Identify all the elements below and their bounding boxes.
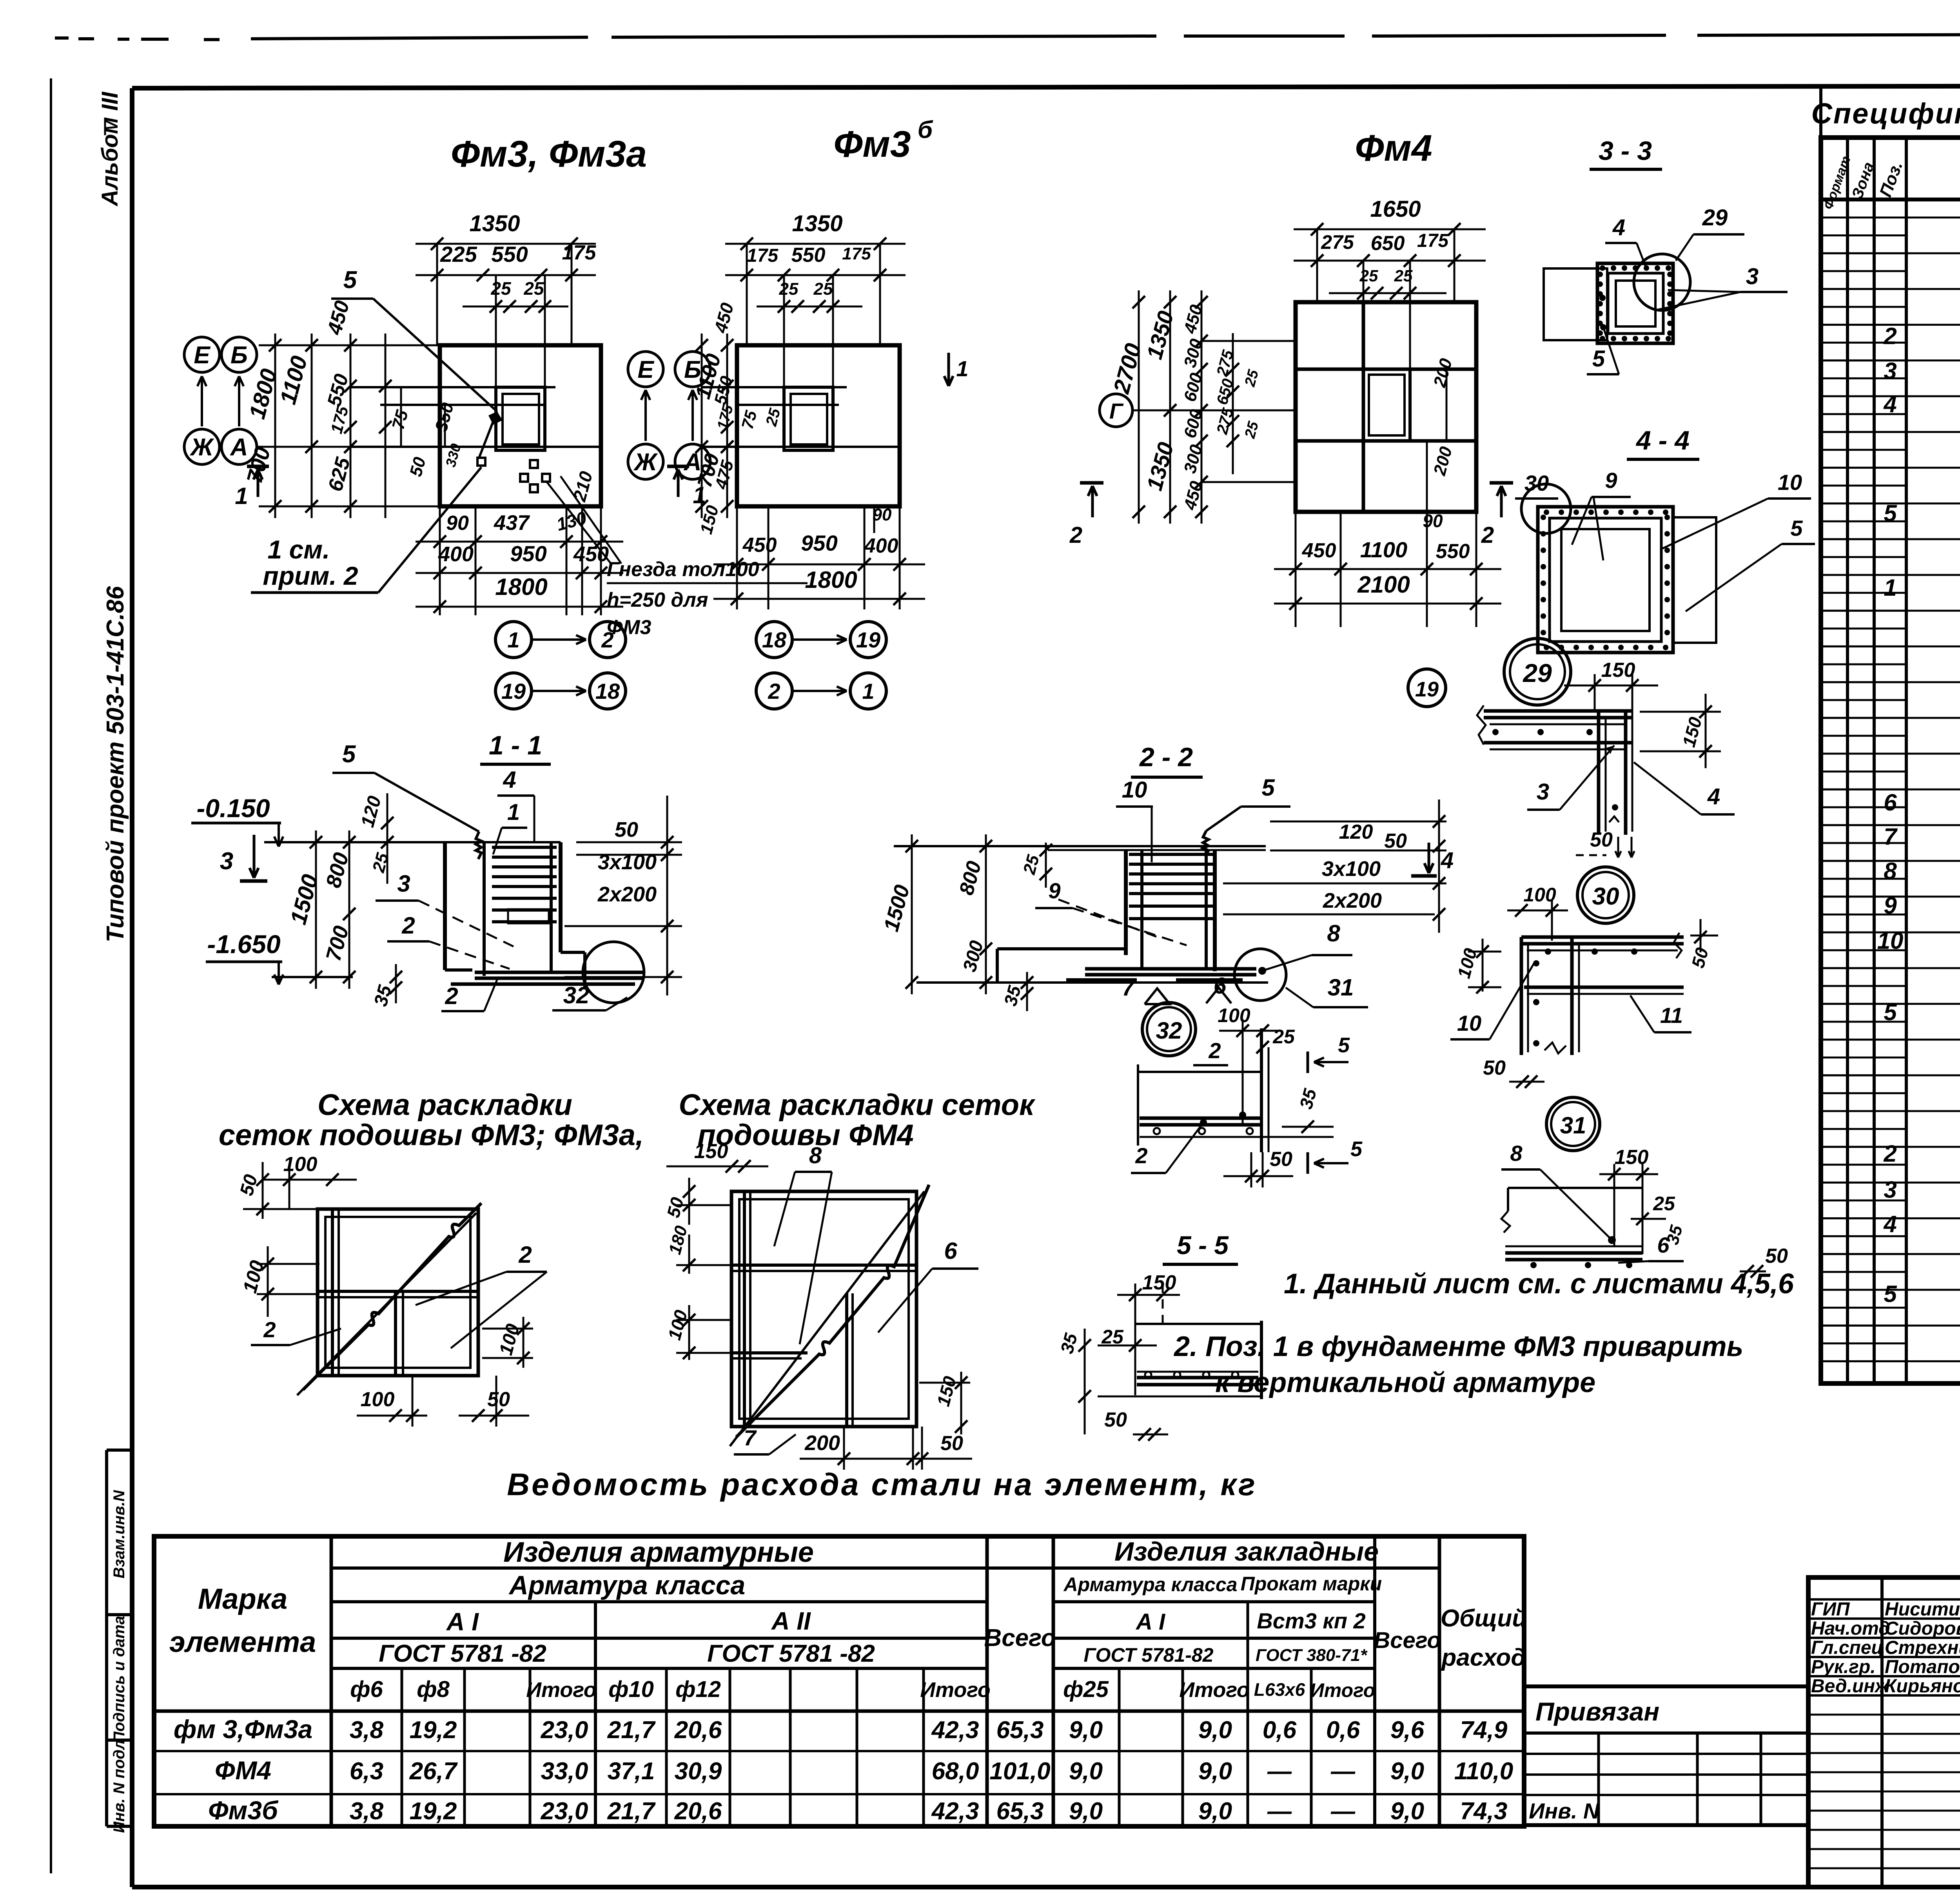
svg-text:50: 50 bbox=[1483, 1057, 1506, 1079]
svg-text:Общий: Общий bbox=[1441, 1605, 1527, 1632]
svg-text:400: 400 bbox=[438, 542, 474, 566]
svg-text:18: 18 bbox=[595, 679, 620, 703]
svg-text:2: 2 bbox=[1481, 522, 1494, 548]
svg-text:1. Данный лист см. с листами: 1. Данный лист см. с листами 4,5,6 bbox=[1284, 1268, 1794, 1300]
svg-text:А I: А I bbox=[446, 1608, 479, 1636]
svg-text:25: 25 bbox=[1394, 267, 1413, 285]
svg-text:1: 1 bbox=[1884, 575, 1896, 601]
svg-text:1650: 1650 bbox=[1370, 196, 1421, 222]
svg-text:8: 8 bbox=[1327, 920, 1340, 946]
svg-text:90: 90 bbox=[1423, 511, 1443, 531]
svg-text:ГОСТ 5781-82: ГОСТ 5781-82 bbox=[1083, 1644, 1213, 1666]
svg-text:Г: Г bbox=[1109, 399, 1124, 423]
svg-text:550: 550 bbox=[491, 242, 528, 267]
svg-text:5: 5 bbox=[1261, 774, 1275, 801]
svg-text:Стрехник: Стрехник bbox=[1885, 1637, 1960, 1658]
svg-text:450: 450 bbox=[1302, 539, 1336, 562]
svg-text:9,0: 9,0 bbox=[1198, 1717, 1232, 1744]
svg-text:Б: Б bbox=[230, 342, 248, 369]
svg-text:101,0: 101,0 bbox=[989, 1758, 1050, 1785]
svg-text:25: 25 bbox=[779, 279, 799, 299]
svg-text:Рук.гр.: Рук.гр. bbox=[1811, 1657, 1876, 1677]
svg-text:50: 50 bbox=[1270, 1148, 1292, 1171]
svg-text:2х200: 2х200 bbox=[597, 883, 657, 906]
svg-text:74,9: 74,9 bbox=[1460, 1717, 1508, 1744]
svg-text:8: 8 bbox=[1510, 1141, 1523, 1166]
svg-text:275: 275 bbox=[1321, 231, 1354, 253]
svg-text:5 - 5: 5 - 5 bbox=[1177, 1231, 1229, 1260]
svg-text:3х100: 3х100 bbox=[598, 850, 657, 874]
svg-text:21,7: 21,7 bbox=[607, 1798, 656, 1825]
svg-text:-0.150: -0.150 bbox=[196, 794, 270, 823]
svg-text:1800: 1800 bbox=[805, 567, 857, 593]
svg-text:Фм3, Фм3а: Фм3, Фм3а bbox=[451, 133, 647, 175]
svg-text:Фм3: Фм3 bbox=[833, 123, 911, 165]
svg-text:4: 4 bbox=[1707, 784, 1720, 809]
svg-text:10: 10 bbox=[1122, 777, 1147, 803]
svg-text:4: 4 bbox=[1612, 215, 1625, 240]
svg-text:4: 4 bbox=[1883, 1211, 1896, 1237]
svg-text:подошвы ФМ4: подошвы ФМ4 bbox=[697, 1119, 914, 1152]
svg-text:30: 30 bbox=[1592, 883, 1619, 910]
svg-text:1: 1 bbox=[956, 356, 968, 381]
svg-text:2х200: 2х200 bbox=[1323, 889, 1382, 912]
svg-text:Прокат марки: Прокат марки bbox=[1241, 1573, 1382, 1595]
svg-text:31: 31 bbox=[1328, 974, 1354, 1001]
svg-text:Е: Е bbox=[637, 356, 654, 383]
svg-text:225: 225 bbox=[440, 242, 477, 267]
svg-text:Ж: Ж bbox=[189, 434, 214, 461]
svg-text:175: 175 bbox=[842, 244, 871, 263]
svg-text:950: 950 bbox=[510, 541, 546, 566]
svg-text:9: 9 bbox=[1605, 468, 1617, 493]
svg-text:2: 2 bbox=[768, 679, 780, 703]
svg-text:Сидорова: Сидорова bbox=[1885, 1618, 1960, 1639]
svg-text:4: 4 bbox=[1883, 391, 1896, 417]
svg-text:150: 150 bbox=[1142, 1271, 1176, 1294]
svg-text:25: 25 bbox=[1653, 1193, 1675, 1215]
svg-text:20,6: 20,6 bbox=[674, 1798, 722, 1825]
svg-text:25: 25 bbox=[813, 279, 833, 299]
svg-text:550: 550 bbox=[1436, 540, 1470, 563]
svg-text:11: 11 bbox=[1660, 1003, 1683, 1028]
svg-text:3: 3 bbox=[1884, 1177, 1896, 1203]
svg-text:Подпись и дата: Подпись и дата bbox=[111, 1616, 128, 1743]
svg-text:5: 5 bbox=[1592, 346, 1605, 372]
svg-text:90: 90 bbox=[446, 512, 469, 535]
svg-text:А II: А II bbox=[771, 1607, 811, 1635]
svg-text:50: 50 bbox=[487, 1388, 510, 1411]
svg-text:100: 100 bbox=[1218, 1004, 1250, 1026]
svg-text:10: 10 bbox=[1778, 470, 1802, 495]
svg-text:Взам.инв.N: Взам.инв.N bbox=[111, 1490, 128, 1578]
svg-text:-1.650: -1.650 bbox=[207, 930, 280, 959]
svg-text:2: 2 bbox=[401, 912, 415, 939]
svg-text:h=250 для: h=250 для bbox=[607, 589, 708, 611]
svg-text:Итого: Итого bbox=[920, 1678, 991, 1702]
svg-text:Инв. N: Инв. N bbox=[1529, 1798, 1600, 1823]
svg-text:сеток подошвы ФМ3; ФМ3а,: сеток подошвы ФМ3; ФМ3а, bbox=[219, 1119, 644, 1152]
svg-text:1 - 1: 1 - 1 bbox=[489, 731, 542, 760]
svg-text:2: 2 bbox=[601, 627, 613, 652]
svg-text:33,0: 33,0 bbox=[541, 1758, 588, 1785]
svg-text:2. Поз. 1 в фундаменте ФМ3 при: 2. Поз. 1 в фундаменте ФМ3 приварить bbox=[1173, 1331, 1743, 1362]
svg-text:100: 100 bbox=[361, 1388, 395, 1411]
svg-text:37,1: 37,1 bbox=[608, 1758, 655, 1785]
svg-text:Потапова: Потапова bbox=[1885, 1657, 1960, 1677]
svg-text:3: 3 bbox=[1884, 358, 1896, 384]
svg-text:5: 5 bbox=[1884, 500, 1897, 526]
svg-text:3: 3 bbox=[1537, 779, 1549, 805]
svg-text:19: 19 bbox=[501, 679, 526, 703]
svg-text:3: 3 bbox=[220, 848, 233, 875]
svg-text:50: 50 bbox=[1765, 1245, 1788, 1267]
svg-text:3,8: 3,8 bbox=[350, 1717, 384, 1744]
svg-text:23,0: 23,0 bbox=[541, 1717, 588, 1744]
svg-text:32: 32 bbox=[563, 982, 590, 1008]
svg-text:Вст3 кп 2: Вст3 кп 2 bbox=[1257, 1608, 1365, 1633]
svg-text:4: 4 bbox=[503, 767, 516, 793]
svg-text:8: 8 bbox=[1884, 858, 1897, 884]
svg-text:9,0: 9,0 bbox=[1198, 1798, 1232, 1825]
svg-text:Изделия закладные: Изделия закладные bbox=[1114, 1537, 1379, 1566]
svg-text:25: 25 bbox=[523, 278, 544, 299]
svg-text:Арматура класса: Арматура класса bbox=[508, 1570, 745, 1600]
svg-text:—: — bbox=[1267, 1798, 1292, 1825]
svg-text:19: 19 bbox=[1415, 678, 1439, 701]
svg-text:150: 150 bbox=[694, 1140, 728, 1163]
svg-text:Альбом III: Альбом III bbox=[97, 91, 123, 207]
svg-text:—: — bbox=[1267, 1758, 1292, 1785]
svg-text:25: 25 bbox=[1359, 267, 1378, 285]
svg-text:10: 10 bbox=[1877, 928, 1904, 954]
svg-text:расход: расход bbox=[1441, 1644, 1526, 1671]
svg-text:6: 6 bbox=[1884, 789, 1897, 816]
svg-text:2: 2 bbox=[1069, 522, 1082, 548]
svg-text:6: 6 bbox=[1657, 1233, 1670, 1257]
svg-text:8: 8 bbox=[809, 1143, 822, 1168]
svg-text:20,6: 20,6 bbox=[674, 1717, 722, 1744]
svg-text:1350: 1350 bbox=[792, 211, 842, 236]
svg-text:ФМ4: ФМ4 bbox=[215, 1756, 271, 1785]
svg-text:23,0: 23,0 bbox=[541, 1798, 588, 1825]
svg-text:2: 2 bbox=[1883, 1140, 1896, 1167]
svg-text:А: А bbox=[230, 434, 248, 461]
svg-text:9,0: 9,0 bbox=[1198, 1758, 1232, 1785]
svg-text:ГОСТ 5781 -82: ГОСТ 5781 -82 bbox=[707, 1640, 875, 1667]
svg-text:50: 50 bbox=[1384, 830, 1407, 852]
svg-text:7: 7 bbox=[744, 1425, 757, 1450]
svg-text:0,6: 0,6 bbox=[1326, 1717, 1360, 1744]
svg-text:ф10: ф10 bbox=[608, 1677, 654, 1702]
svg-text:65,3: 65,3 bbox=[996, 1798, 1044, 1825]
svg-text:175: 175 bbox=[747, 245, 779, 266]
svg-text:32: 32 bbox=[1156, 1017, 1182, 1044]
svg-text:Арматура класса: Арматура класса bbox=[1063, 1574, 1238, 1595]
svg-text:400: 400 bbox=[864, 535, 898, 557]
svg-text:элемента: элемента bbox=[169, 1626, 316, 1658]
svg-text:Всего: Всего bbox=[984, 1624, 1056, 1652]
svg-text:5: 5 bbox=[1350, 1137, 1363, 1161]
svg-text:1100: 1100 bbox=[1360, 537, 1407, 562]
svg-text:2: 2 bbox=[445, 983, 458, 1009]
svg-text:ф8: ф8 bbox=[417, 1677, 450, 1702]
svg-text:31: 31 bbox=[1560, 1112, 1586, 1139]
svg-text:21,7: 21,7 bbox=[607, 1717, 656, 1744]
svg-text:ф25: ф25 bbox=[1063, 1677, 1109, 1702]
svg-text:1800: 1800 bbox=[495, 574, 547, 600]
svg-text:26,7: 26,7 bbox=[409, 1758, 458, 1785]
svg-text:950: 950 bbox=[801, 531, 837, 555]
svg-text:175: 175 bbox=[1417, 230, 1449, 251]
svg-text:Схема раскладки: Схема раскладки bbox=[318, 1088, 572, 1122]
svg-text:0,6: 0,6 bbox=[1263, 1717, 1297, 1744]
svg-text:Гл.спец: Гл.спец bbox=[1811, 1637, 1884, 1658]
svg-text:—: — bbox=[1330, 1758, 1356, 1785]
svg-text:42,3: 42,3 bbox=[931, 1717, 979, 1744]
svg-text:68,0: 68,0 bbox=[932, 1758, 979, 1785]
svg-text:А I: А I bbox=[1135, 1609, 1166, 1635]
svg-text:L63х6: L63х6 bbox=[1254, 1679, 1305, 1700]
svg-text:Схема раскладки сеток: Схема раскладки сеток bbox=[679, 1088, 1036, 1122]
svg-text:50: 50 bbox=[1104, 1409, 1127, 1431]
svg-text:9: 9 bbox=[1884, 892, 1897, 919]
svg-text:2: 2 bbox=[518, 1242, 532, 1268]
svg-text:5: 5 bbox=[343, 267, 358, 294]
svg-text:50: 50 bbox=[615, 818, 638, 841]
svg-text:3 - 3: 3 - 3 bbox=[1599, 136, 1652, 166]
svg-text:Итого: Итого bbox=[526, 1678, 597, 1702]
svg-text:7: 7 bbox=[1884, 823, 1898, 850]
svg-text:120: 120 bbox=[1339, 821, 1373, 843]
svg-text:42,3: 42,3 bbox=[931, 1798, 979, 1825]
svg-text:30,9: 30,9 bbox=[675, 1758, 722, 1785]
svg-text:Итого: Итого bbox=[1179, 1678, 1250, 1702]
svg-text:5: 5 bbox=[342, 741, 356, 768]
svg-text:4: 4 bbox=[1441, 848, 1454, 873]
svg-text:3х100: 3х100 bbox=[1322, 857, 1381, 881]
svg-text:50: 50 bbox=[940, 1432, 963, 1455]
svg-text:9,0: 9,0 bbox=[1069, 1798, 1103, 1825]
svg-text:65,3: 65,3 bbox=[996, 1717, 1044, 1744]
svg-text:б: б bbox=[918, 116, 933, 143]
svg-text:437: 437 bbox=[494, 511, 530, 535]
svg-text:Изделия арматурные: Изделия арматурные bbox=[503, 1537, 814, 1568]
svg-text:25: 25 bbox=[490, 278, 512, 299]
svg-text:4 - 4: 4 - 4 bbox=[1635, 426, 1690, 455]
svg-text:19: 19 bbox=[856, 627, 880, 652]
svg-text:Ведомость расхода стали: Ведомость расхода стали на элемент, кг bbox=[507, 1467, 1257, 1502]
svg-text:ГОСТ 380-71*: ГОСТ 380-71* bbox=[1256, 1646, 1368, 1665]
svg-text:18: 18 bbox=[762, 627, 787, 652]
svg-text:фм 3,Фм3а: фм 3,Фм3а bbox=[174, 1715, 312, 1744]
svg-text:650: 650 bbox=[1371, 232, 1405, 255]
svg-text:175: 175 bbox=[562, 241, 597, 264]
svg-text:2 - 2: 2 - 2 bbox=[1139, 742, 1193, 772]
svg-text:50: 50 bbox=[1590, 829, 1613, 851]
svg-text:9,0: 9,0 bbox=[1390, 1758, 1424, 1785]
svg-text:19,2: 19,2 bbox=[410, 1798, 457, 1825]
svg-text:Фм3б: Фм3б bbox=[208, 1796, 279, 1825]
svg-text:ГИП: ГИП bbox=[1811, 1599, 1850, 1620]
svg-text:2: 2 bbox=[1883, 323, 1896, 349]
svg-text:2: 2 bbox=[1208, 1038, 1221, 1063]
svg-text:Всего: Всего bbox=[1374, 1628, 1441, 1653]
svg-text:ф6: ф6 bbox=[350, 1677, 383, 1702]
svg-text:5: 5 bbox=[1338, 1033, 1350, 1057]
svg-text:Итого: Итого bbox=[1310, 1679, 1375, 1701]
svg-text:Привязан: Привязан bbox=[1535, 1697, 1659, 1726]
svg-text:29: 29 bbox=[1522, 658, 1552, 687]
svg-text:Фм4: Фм4 bbox=[1355, 127, 1432, 169]
svg-text:110,0: 110,0 bbox=[1454, 1758, 1514, 1785]
svg-text:1 см.: 1 см. bbox=[268, 535, 330, 564]
svg-text:6,3: 6,3 bbox=[350, 1758, 383, 1785]
svg-text:9,0: 9,0 bbox=[1390, 1798, 1424, 1825]
svg-text:1: 1 bbox=[862, 679, 874, 703]
svg-text:5: 5 bbox=[1790, 516, 1803, 540]
svg-text:5: 5 bbox=[1884, 1281, 1897, 1307]
svg-text:Кирьянова: Кирьянова bbox=[1885, 1676, 1960, 1697]
svg-text:ГОСТ 5781 -82: ГОСТ 5781 -82 bbox=[379, 1640, 546, 1667]
svg-text:Ж: Ж bbox=[633, 449, 658, 476]
svg-text:3,8: 3,8 bbox=[350, 1798, 384, 1825]
svg-text:10: 10 bbox=[1457, 1011, 1481, 1035]
svg-text:прим. 2: прим. 2 bbox=[263, 561, 358, 590]
svg-text:29: 29 bbox=[1702, 205, 1728, 230]
svg-text:Вед.инж: Вед.инж bbox=[1811, 1676, 1890, 1697]
svg-text:6: 6 bbox=[944, 1238, 957, 1264]
svg-text:Спецификация фундаментов Фм3: Спецификация фундаментов Фм3, Фм4,Фм3а, … bbox=[1811, 97, 1960, 130]
svg-text:Марка: Марка bbox=[198, 1583, 287, 1615]
svg-text:5: 5 bbox=[1884, 999, 1897, 1025]
svg-text:—: — bbox=[1330, 1798, 1356, 1825]
svg-text:Ниситин: Ниситин bbox=[1885, 1599, 1960, 1620]
svg-text:200: 200 bbox=[804, 1431, 840, 1455]
svg-text:к вертикальной арматуре: к вертикальной арматуре bbox=[1215, 1367, 1595, 1398]
svg-text:7: 7 bbox=[1122, 975, 1136, 1001]
svg-text:1: 1 bbox=[235, 483, 248, 509]
svg-text:450: 450 bbox=[742, 534, 777, 557]
svg-text:9,0: 9,0 bbox=[1069, 1717, 1103, 1744]
svg-text:Нач.отд: Нач.отд bbox=[1811, 1618, 1890, 1639]
svg-text:3: 3 bbox=[397, 870, 410, 897]
svg-text:1350: 1350 bbox=[469, 211, 520, 236]
svg-text:1: 1 bbox=[507, 800, 520, 825]
svg-text:1: 1 bbox=[507, 627, 519, 652]
svg-text:30: 30 bbox=[1524, 471, 1549, 495]
svg-text:25: 25 bbox=[1272, 1026, 1295, 1048]
svg-text:2: 2 bbox=[1135, 1143, 1147, 1168]
svg-text:74,3: 74,3 bbox=[1460, 1798, 1508, 1825]
svg-text:3: 3 bbox=[1746, 264, 1759, 289]
svg-text:90: 90 bbox=[873, 505, 892, 524]
svg-text:19,2: 19,2 bbox=[410, 1717, 457, 1744]
svg-text:Е: Е bbox=[194, 342, 211, 369]
svg-text:2: 2 bbox=[263, 1317, 276, 1342]
svg-text:550: 550 bbox=[791, 244, 826, 267]
svg-text:2100: 2100 bbox=[1357, 571, 1410, 598]
svg-text:9,6: 9,6 bbox=[1390, 1717, 1425, 1744]
svg-text:ф12: ф12 bbox=[675, 1677, 721, 1702]
svg-text:9,0: 9,0 bbox=[1069, 1758, 1103, 1785]
svg-text:150: 150 bbox=[1601, 659, 1635, 682]
svg-text:Инв. N подл: Инв. N подл bbox=[111, 1740, 128, 1833]
svg-text:Типовой проект 503-1-41С.86: Типовой проект 503-1-41С.86 bbox=[102, 586, 129, 943]
